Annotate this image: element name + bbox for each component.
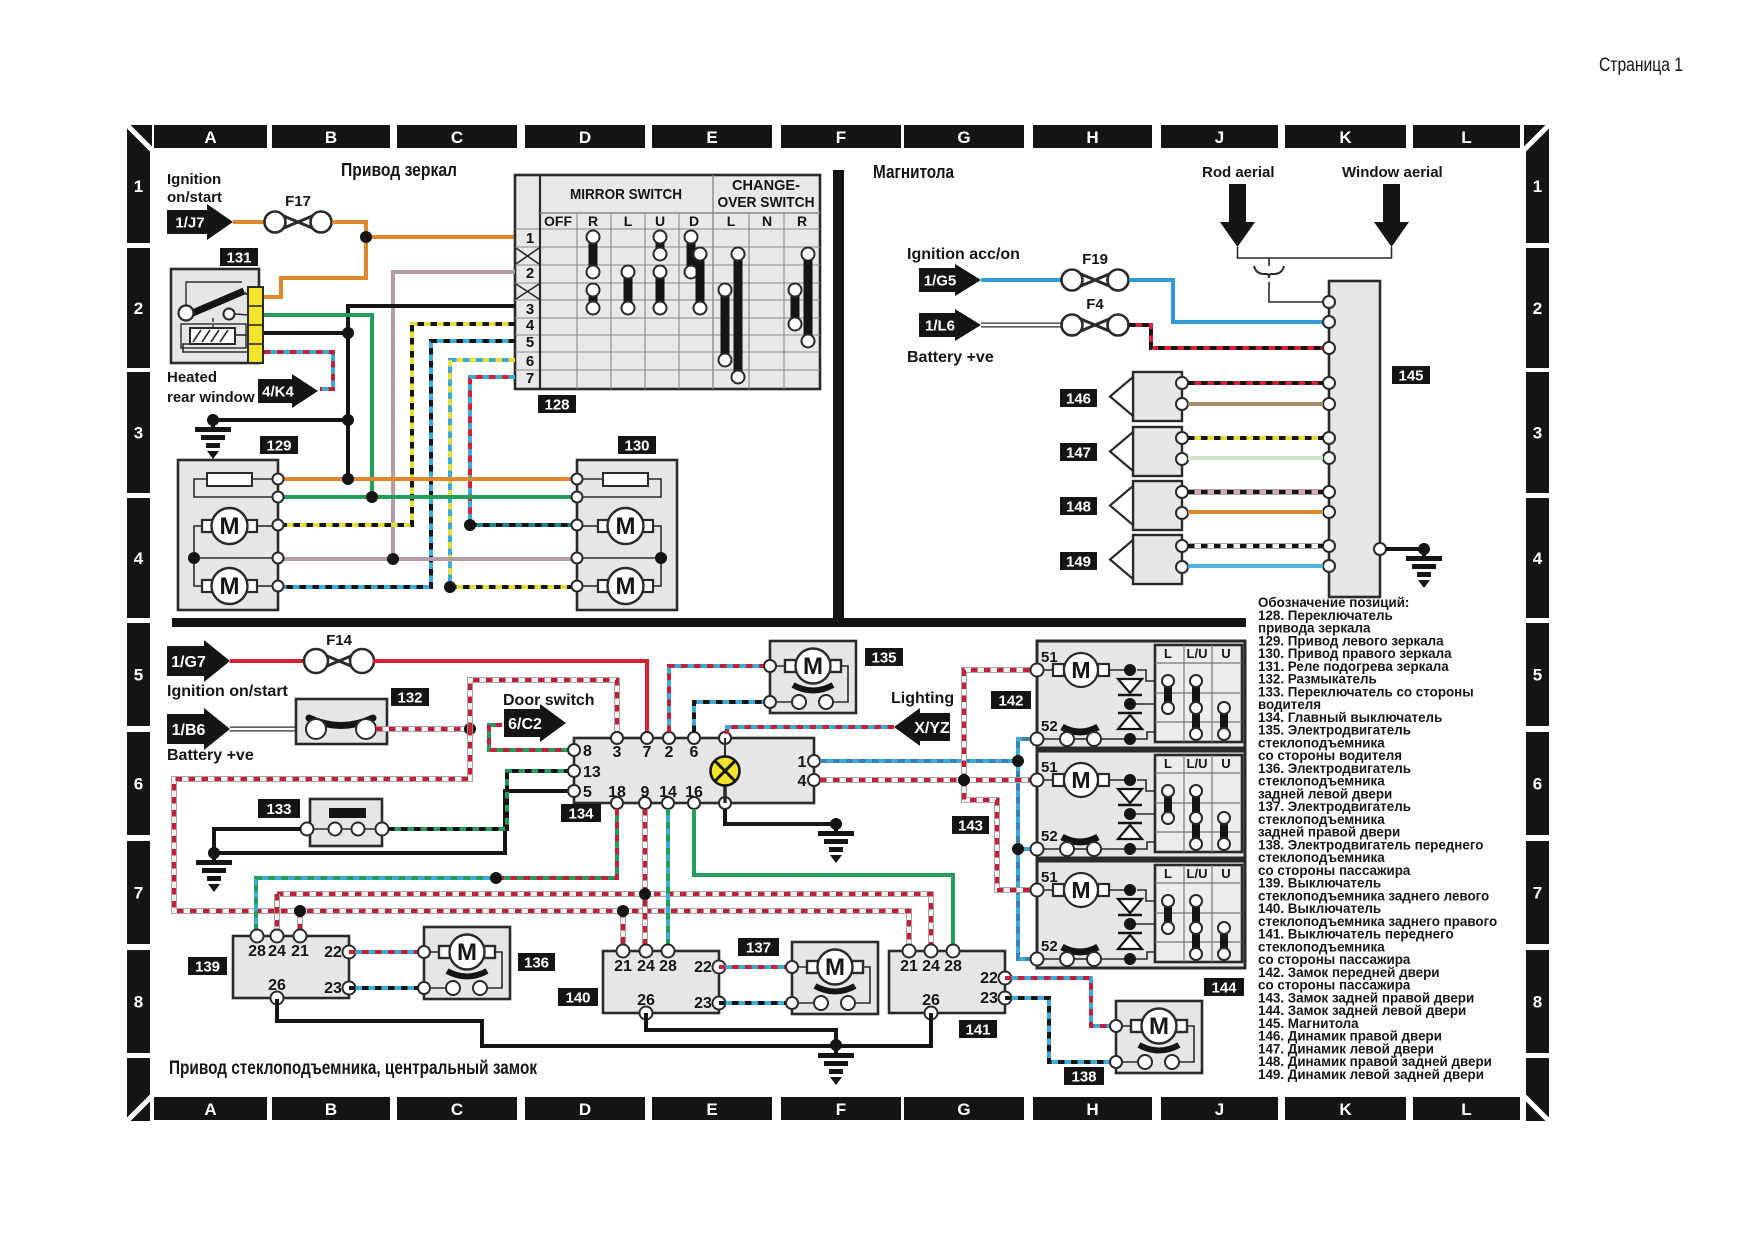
svg-text:1: 1 [1533,177,1542,196]
svg-text:52: 52 [1041,938,1058,955]
svg-text:MIRROR SWITCH: MIRROR SWITCH [570,186,682,203]
wire brown 146 to 145 [1188,402,1323,406]
circuit breaker 132 [296,699,387,744]
svg-text:6: 6 [526,353,534,370]
svg-text:2: 2 [526,265,534,282]
svg-text:Rod aerial: Rod aerial [1202,164,1275,181]
svg-text:Ignition: Ignition [167,171,221,188]
svg-text:23: 23 [694,995,712,1012]
svg-text:L/U: L/U [1187,866,1208,881]
wire teal-red X/YZ to 134 [727,727,894,734]
svg-text:OVER SWITCH: OVER SWITCH [718,194,815,211]
wire orange node A to 128 pin1 [366,235,515,239]
svg-text:22: 22 [694,959,712,976]
svg-text:M: M [616,573,636,600]
svg-text:F19: F19 [1082,251,1108,268]
svg-text:L: L [624,213,633,229]
label 144 [1204,978,1244,996]
svg-text:3: 3 [613,744,622,761]
label 136 [518,953,555,971]
svg-text:U: U [1221,866,1230,881]
svg-text:1/G5: 1/G5 [924,272,957,289]
wire cyan-blue to 143.52 [1018,847,1031,851]
wire red-white node D to 140.21 [620,911,626,946]
mirror actuator 129 [178,460,284,610]
wire teal-black to 130 pin3 [470,523,571,527]
svg-text:26: 26 [637,992,655,1009]
svg-text:M: M [220,573,240,600]
wire yellow-black to 130 pin5 [450,585,571,589]
svg-text:26: 26 [922,992,940,1009]
label 143 [952,816,989,834]
svg-text:134: 134 [568,805,594,822]
door lock unit 144 rear left door lock [1031,861,1246,968]
svg-text:4: 4 [798,773,807,790]
wire black 139.26 to ground [277,999,836,1046]
svg-text:B: B [325,1100,337,1119]
svg-text:M: M [825,954,845,981]
node node switch ground [830,1039,842,1051]
node node mauve [387,553,399,565]
ground ground radio [1406,549,1442,588]
wire cyan-black 139.23 to 136 [349,986,424,990]
label 138 [1064,1067,1104,1085]
connector arrow 1/G5 [919,264,981,296]
wire pale green 147 to 145 [1188,456,1323,460]
svg-text:23: 23 [324,980,342,997]
svg-text:Battery +ve: Battery +ve [167,747,254,764]
svg-text:4: 4 [1533,549,1543,568]
svg-text:28: 28 [944,958,962,975]
svg-text:1/G7: 1/G7 [171,654,206,671]
svg-text:6: 6 [1533,775,1542,794]
wire red-white 132 to node B [376,726,466,732]
node node 128.7 corner [464,519,476,531]
wire pink-black 148 to 145 [1188,489,1323,495]
svg-text:140: 140 [565,989,590,1006]
svg-text:6/C2: 6/C2 [508,716,542,733]
connector arrow 1/B6 [167,708,230,750]
svg-text:C: C [451,128,463,147]
svg-text:4: 4 [526,317,535,334]
svg-text:28: 28 [248,943,266,960]
svg-text:52: 52 [1041,828,1058,845]
frame left number bar [127,129,150,1053]
svg-text:M: M [1071,657,1090,683]
node node C [294,905,306,917]
svg-text:A: A [204,1100,216,1119]
svg-text:L: L [1164,756,1172,771]
node node F [639,888,651,900]
fuse F19 (F19) [1062,251,1129,291]
svg-text:2: 2 [134,299,143,318]
wire orange node A to 131 [264,237,366,297]
wire cyan-red 140.22 to 137 [719,965,792,969]
svg-text:E: E [706,1100,717,1119]
driver door switch 133 [301,799,389,846]
rod aerial arrow [1220,184,1255,247]
wire black 128.3 [348,306,515,333]
aerial joining lines [1238,247,1392,302]
svg-text:C: C [451,1100,463,1119]
svg-text:24: 24 [268,943,286,960]
wire cyan-black 134.6 to 135 [694,702,764,732]
switch 139 rear left window switch [233,930,356,1005]
svg-text:D: D [579,1100,591,1119]
node node A orange junction [360,231,372,243]
master switch 134 [568,732,820,809]
wire white 1/L6 to F4 (white) [981,323,1061,328]
wire red-white 134.4 51-chain [820,777,1031,783]
svg-text:F: F [836,1100,846,1119]
label 128 [538,395,576,413]
svg-text:L: L [727,213,736,229]
section divider vertical [833,170,844,627]
svg-text:28: 28 [659,958,677,975]
ground ground mirror section [195,420,231,459]
wire red-white node B loop [174,729,909,946]
svg-text:6: 6 [690,744,699,761]
svg-text:7: 7 [643,744,652,761]
svg-text:5: 5 [526,334,534,351]
frame top letter bar [154,125,1520,148]
speaker 147 [1110,427,1188,476]
label 139 [188,957,227,975]
svg-text:Ignition acc/on: Ignition acc/on [907,246,1020,263]
svg-text:CHANGE-: CHANGE- [732,177,800,194]
ground ground 134 lamp [818,824,854,863]
svg-text:128: 128 [544,396,569,413]
svg-text:1/L6: 1/L6 [925,317,955,334]
wire red-white node C to 139.21 [297,911,303,930]
svg-text:Lighting: Lighting [891,690,954,707]
speaker 149 [1110,535,1188,584]
svg-text:L/U: L/U [1187,646,1208,661]
label 135 [865,648,903,666]
svg-text:M: M [1149,1013,1169,1040]
node node radio ground [1418,543,1430,555]
fuse F17 (F17) [265,193,332,233]
wire red-white to 142.51 [964,670,1031,780]
wire cyan-blue to 142.52 [1018,739,1031,761]
svg-text:133: 133 [266,801,291,818]
svg-text:U: U [1221,646,1230,661]
svg-text:16: 16 [685,784,703,801]
label 149 [1060,552,1097,570]
wire cyan-green 134.14 to 140.28 [666,809,670,946]
svg-text:136: 136 [524,954,549,971]
svg-text:13: 13 [583,764,601,781]
wire mauve mirrors bus [284,557,571,561]
svg-text:130: 130 [624,437,649,454]
svg-text:21: 21 [900,958,918,975]
motor 137 rear right window lifter [786,942,878,1014]
svg-text:7: 7 [1533,884,1542,903]
mirror actuator 130 [572,460,678,610]
svg-text:132: 132 [397,689,422,706]
svg-text:J: J [1215,1100,1224,1119]
svg-text:1: 1 [526,230,534,247]
svg-text:U: U [655,213,665,229]
connector arrow 1/G7 [167,640,230,682]
svg-text:131: 131 [226,249,251,266]
frame corners [126,124,1550,1122]
wire orange 1/J7 to F17 [233,220,265,224]
svg-text:7: 7 [526,370,534,387]
wire black 141.26 to ground [836,1013,931,1046]
node node 51a [958,774,970,786]
label 148 [1060,497,1097,515]
wire cyan-red 139.22 to 136 [349,950,424,954]
wire red-white 9-bus [277,894,931,946]
svg-text:K: K [1339,128,1352,147]
wire red-black F4 to 145 [1129,325,1323,348]
wire cyan 149 to 145 [1188,564,1323,568]
radio 145 [1323,281,1386,597]
svg-text:1: 1 [798,754,807,771]
wire black 134 lamp to ground [725,809,836,824]
wire orange mirrors bus [284,477,571,481]
svg-text:M: M [1071,877,1090,903]
svg-text:A: A [204,128,216,147]
svg-text:148: 148 [1066,498,1091,515]
svg-text:E: E [706,128,717,147]
svg-text:N: N [762,213,772,229]
svg-text:1: 1 [134,177,143,196]
svg-text:Window aerial: Window aerial [1342,164,1443,181]
connector arrow X/YZ [894,708,950,746]
motor 138 front passenger window lifter [1110,1001,1202,1073]
wire cyan-yellow 128.6 [450,360,515,587]
wire red-white to 139.24 [274,894,280,930]
svg-text:145: 145 [1398,367,1423,384]
svg-text:138: 138 [1071,1068,1096,1085]
svg-text:8: 8 [1533,993,1542,1012]
svg-text:24: 24 [922,958,940,975]
svg-text:4: 4 [134,549,144,568]
speaker 146 [1110,372,1188,421]
svg-text:14: 14 [659,784,677,801]
svg-text:Магнитола: Магнитола [873,162,955,182]
svg-text:R: R [588,213,598,229]
svg-text:X/YZ: X/YZ [914,720,950,737]
frame right number bar [1526,129,1549,1053]
label 130 [618,436,656,454]
svg-text:26: 26 [268,977,286,994]
wire red-black 146 to 145 [1188,381,1323,385]
svg-text:144: 144 [1211,979,1237,996]
node node lamp ground [830,818,842,830]
wire black down to ground node [346,333,350,479]
fuse F14 (F14) [304,632,374,673]
svg-text:18: 18 [608,784,626,801]
wire red-cyan 131 to 4/K4 [264,352,333,389]
frame bottom letter bar [154,1097,1520,1120]
label 137 [738,938,779,956]
svg-text:9: 9 [641,784,650,801]
wire green-red 134.18 to 139.28 [496,809,617,878]
wire red-white 134.9 to 140.24 [642,809,648,946]
svg-text:R: R [797,213,807,229]
wire red F14 to 134.7 [373,661,647,732]
svg-text:5: 5 [1533,666,1542,685]
svg-text:L: L [1164,646,1172,661]
svg-text:on/start: on/start [167,189,222,206]
svg-text:3: 3 [1533,424,1542,443]
label 134 [561,804,601,822]
svg-text:2: 2 [1533,299,1542,318]
svg-text:H: H [1086,1100,1098,1119]
wire yellow-black 128.4 [284,324,515,525]
speaker 148 [1110,481,1188,530]
svg-text:142: 142 [998,692,1023,709]
svg-text:7: 7 [134,884,143,903]
svg-text:J: J [1215,128,1224,147]
relay 131 [171,269,259,363]
svg-text:K: K [1339,1100,1352,1119]
node node 52a [1012,755,1024,767]
svg-text:137: 137 [746,939,771,956]
wire black 131 coil to node [264,331,348,335]
svg-text:D: D [579,128,591,147]
wire red-white to 144.51 [964,780,1031,890]
svg-text:Door switch: Door switch [503,692,595,709]
wire cyan 139.28 riser [256,878,496,930]
fuse F4 (F4) [1062,296,1129,336]
label 141 [959,1020,997,1038]
node node E [490,872,502,884]
svg-text:OFF: OFF [544,213,572,229]
label 147 [1060,443,1097,461]
svg-text:F: F [836,128,846,147]
wire cyan-red 134.2 to 135 [669,666,764,732]
svg-text:F4: F4 [1086,296,1104,313]
svg-text:M: M [1071,767,1090,793]
wire mauve 128.2 [393,272,515,559]
wire red-white node B to 134.3 [470,680,617,732]
wire green-black 133 to 134.13 [388,771,568,829]
svg-text:B: B [325,128,337,147]
svg-text:M: M [616,513,636,540]
wire black 134.5 to ground [214,791,568,853]
svg-text:149: 149 [1066,553,1091,570]
svg-text:3: 3 [134,424,143,443]
label 142 [991,691,1031,709]
node node B 132 out [464,723,476,735]
wire red-cyan 128.7 [470,377,515,525]
svg-text:143: 143 [958,817,983,834]
wire cyan-black 128.5 [284,341,515,587]
wire green mirrors bus [284,495,571,499]
svg-text:L: L [1164,866,1172,881]
svg-text:Ignition on/start: Ignition on/start [167,683,289,700]
svg-text:Привод зеркал: Привод зеркал [341,160,457,180]
switch 140 rear right window switch [603,945,726,1020]
wire black 140.26 to ground [646,1013,836,1046]
wire black 145 to ground [1386,547,1424,551]
connector arrow 1/L6 [919,309,981,341]
svg-text:M: M [220,513,240,540]
door lock unit 143 rear right door lock [1031,751,1246,858]
label 146 [1060,389,1097,407]
wire green 131 to mirrors [264,315,372,497]
svg-text:3: 3 [526,301,534,318]
ground ground 133 [196,853,232,892]
label 145 [1392,366,1430,384]
connector arrow 1/J7 [167,204,233,240]
label 133 [258,799,300,818]
svg-text:U: U [1221,756,1230,771]
node node black-orange [342,473,354,485]
wire cyan-black 140.23 to 137 [719,1001,792,1005]
node node black 131/128 [342,327,354,339]
wire cyan-red 141.22 to 138 [1005,978,1110,1026]
svg-text:M: M [803,653,823,680]
svg-text:2: 2 [665,744,674,761]
wire green 134.16 to 141.28 [694,809,953,946]
svg-text:24: 24 [637,958,655,975]
svg-text:8: 8 [134,993,143,1012]
wire orange 148 to 145 [1188,510,1323,514]
svg-text:Battery +ve: Battery +ve [907,349,994,366]
section divider horizontal [172,618,1246,627]
svg-text:Привод стеклоподъемника, центр: Привод стеклоподъемника, центральный зам… [169,1058,537,1079]
wire yellow-black 147 to 145 [1188,436,1323,440]
svg-text:G: G [957,1100,970,1119]
svg-text:129: 129 [266,437,291,454]
svg-text:H: H [1086,128,1098,147]
svg-text:52: 52 [1041,718,1058,735]
motor 135 driver window lifter [764,641,856,713]
svg-text:22: 22 [324,944,342,961]
wire black 133 to ground [214,829,301,853]
node node ground 133 [208,847,220,859]
svg-text:135: 135 [871,649,896,666]
node node 52b [1012,843,1024,855]
window aerial arrow [1374,184,1409,247]
svg-text:L/U: L/U [1187,756,1208,771]
mirror switch 128 table [515,175,820,389]
svg-text:146: 146 [1066,390,1091,407]
svg-text:149. Динамик левой задней двер: 149. Динамик левой задней двери [1258,1067,1484,1082]
label 129 [260,436,298,454]
svg-text:rear window: rear window [167,389,255,406]
svg-text:Страница 1: Страница 1 [1599,55,1683,76]
svg-text:M: M [457,939,477,966]
label 131 [220,248,258,266]
node node green [366,491,378,503]
svg-text:1/B6: 1/B6 [172,722,206,739]
wire blue F19 to 145 [1129,280,1323,322]
legend position list [1258,595,1497,1082]
wire red 1/G7 to F14 [230,659,306,663]
relay 131 yellow connector [248,287,263,363]
svg-text:141: 141 [965,1021,990,1038]
label 132 [391,688,429,706]
wire green-red 6/C2 to 134.8 [489,725,568,750]
svg-text:F14: F14 [326,632,353,649]
wire blue 1/G5 to F19 [981,278,1061,282]
svg-text:1/J7: 1/J7 [175,214,204,231]
svg-text:23: 23 [980,990,998,1007]
wire white 1/B6 to 132 (white) [230,727,296,732]
wire cyan-black 141.23 to 138 [1005,998,1110,1062]
node node 128.6 corner [444,581,456,593]
wire black ground branch [213,418,348,422]
node node black ground left [207,414,219,426]
svg-text:147: 147 [1066,444,1091,461]
door lock unit 142 front passenger door lock [1031,641,1246,748]
